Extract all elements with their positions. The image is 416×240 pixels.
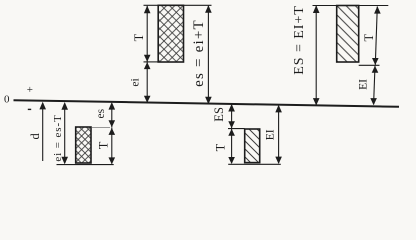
extension line top-right of rect 1 bbox=[92, 127, 111, 129]
svg-text:ES = EI+T: ES = EI+T bbox=[292, 5, 307, 74]
minus sign bbox=[28, 108, 31, 110]
svg-text:T: T bbox=[132, 33, 146, 41]
extension line top-left of rect 2 bbox=[144, 4, 159, 6]
svg-text:EI: EI bbox=[264, 129, 276, 140]
svg-text:T: T bbox=[362, 34, 376, 42]
svg-text:0: 0 bbox=[4, 94, 10, 106]
extension line bottom of rect 1 bbox=[57, 164, 114, 166]
dimension T (left of rect 3) bbox=[214, 129, 235, 164]
svg-text:es: es bbox=[95, 108, 107, 118]
extension line bottom-right of rect 4 bbox=[359, 64, 380, 66]
tolerance zone rect 1 (shaft, below line) bbox=[76, 127, 91, 163]
extension line top-right of rect 2 bbox=[184, 4, 212, 6]
dimension EI (right of rect 4) bbox=[357, 66, 378, 106]
tolerance zone rect 4 (hole, above line) bbox=[337, 6, 359, 63]
dimension T (right of rect 1) bbox=[97, 128, 115, 165]
dimension ei (left of rect 2) bbox=[129, 62, 150, 103]
extension line bottom-left of rect 2 bbox=[144, 61, 159, 63]
dimension T (left of rect 2) bbox=[132, 6, 150, 62]
tolerance zone rect 2 (shaft, above line) bbox=[158, 5, 183, 62]
svg-text:ei: ei bbox=[129, 78, 141, 86]
dimension ES = EI+T (left of rect 4) bbox=[292, 5, 320, 105]
tolerance zone rect 3 (hole, below line) bbox=[245, 129, 260, 163]
svg-text:T: T bbox=[97, 141, 111, 149]
svg-text:ei = es-T: ei = es-T bbox=[52, 114, 64, 161]
dimension EI (right of rect 3) bbox=[264, 105, 282, 164]
dimension T (right of rect 4) bbox=[362, 6, 381, 65]
extension line top-left of rect 4 bbox=[313, 5, 337, 7]
extension line bottom of rect 3 bbox=[228, 163, 281, 165]
dimension ei = es-T bbox=[52, 102, 68, 164]
zero line bbox=[14, 100, 400, 107]
svg-text:es = ei+T: es = ei+T bbox=[191, 19, 207, 87]
svg-text:T: T bbox=[214, 143, 228, 151]
svg-text:+: + bbox=[27, 84, 33, 96]
extension line top-left of rect 3 bbox=[228, 128, 245, 130]
svg-text:ES: ES bbox=[212, 107, 226, 122]
svg-text:EI: EI bbox=[357, 79, 369, 90]
dimension es = ei+T (right of rect 2) bbox=[191, 5, 212, 104]
dimension ES (left of rect 3) bbox=[212, 104, 235, 128]
dimension es (right of rect 1) bbox=[95, 102, 115, 128]
dimension d bbox=[28, 102, 46, 161]
extension line top-right of rect 4 bbox=[359, 5, 389, 7]
svg-text:d: d bbox=[28, 133, 42, 140]
